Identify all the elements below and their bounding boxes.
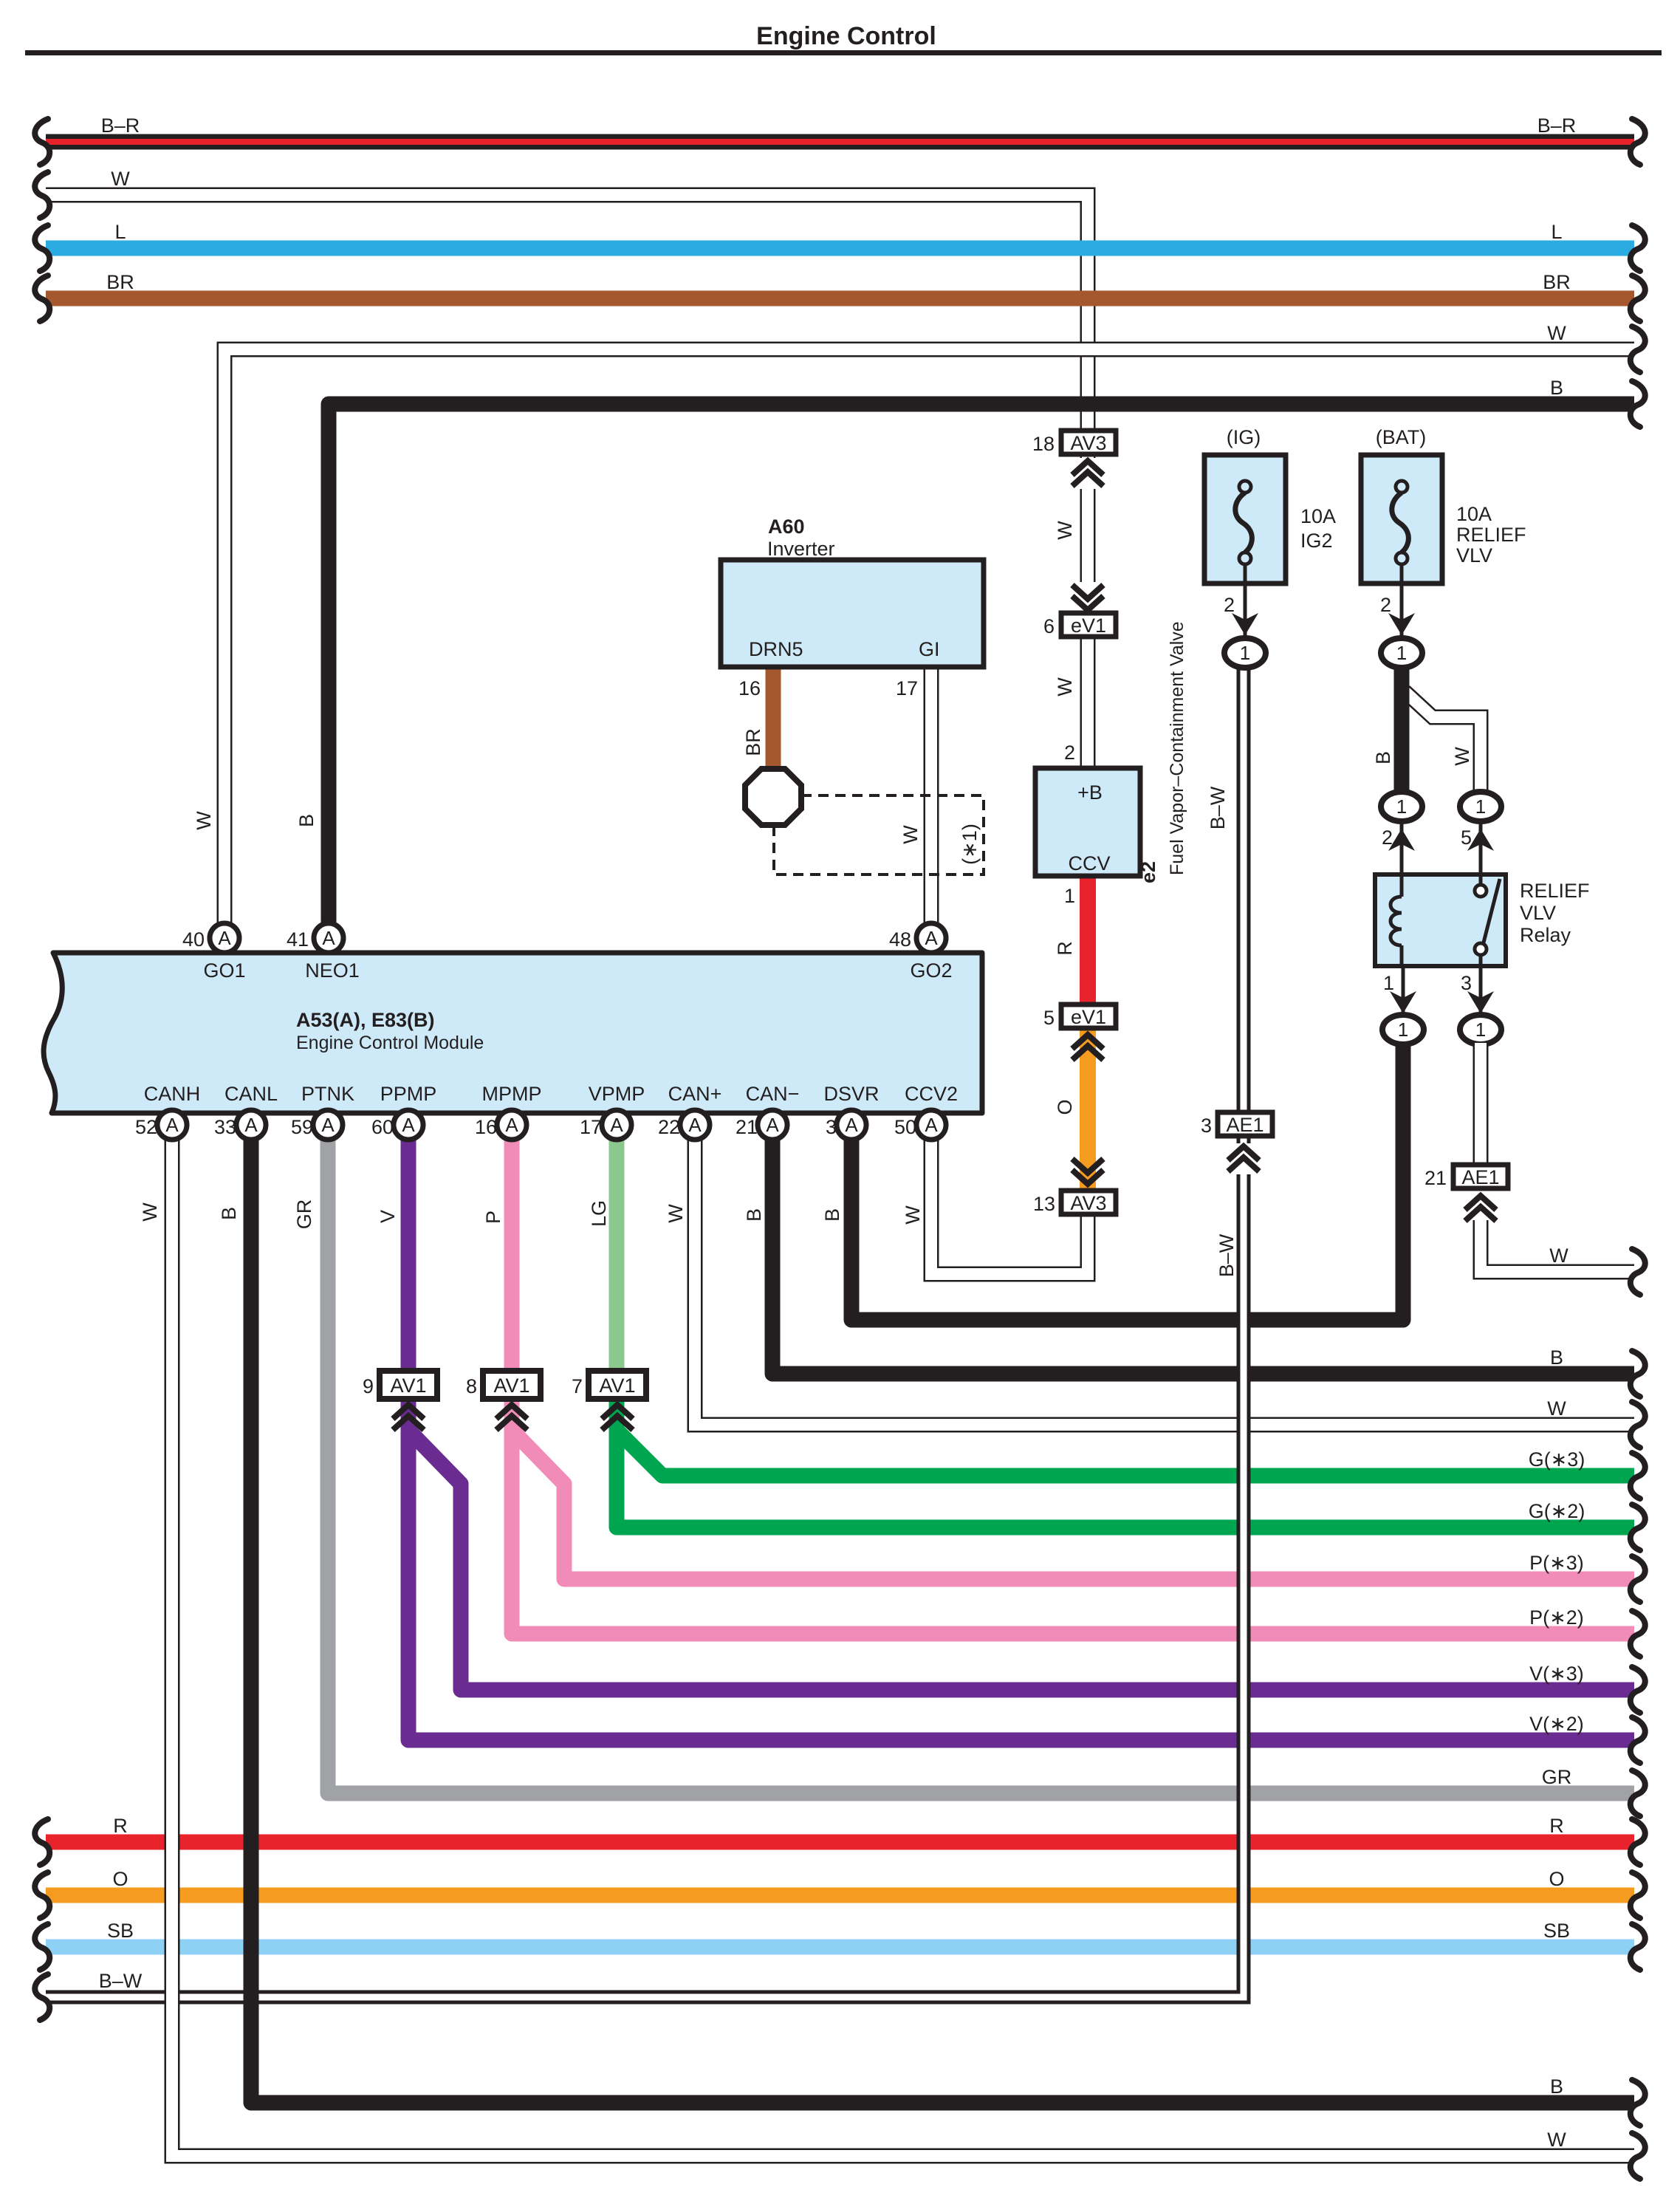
svg-text:R: R — [113, 1815, 128, 1837]
svg-text:2: 2 — [1380, 594, 1391, 616]
oval relay bottom left 1 — [1382, 1015, 1424, 1044]
connector 6 eV1 — [1043, 613, 1116, 637]
connector 13 AV3 — [1033, 1191, 1116, 1215]
svg-text:17: 17 — [580, 1116, 602, 1138]
svg-text:V(∗3): V(∗3) — [1529, 1663, 1584, 1685]
chevron below AV1 7 — [602, 1405, 633, 1430]
wire G(*3) — [617, 1397, 1634, 1476]
wire W from ECM CAN+ pin 22 — [695, 1137, 1634, 1425]
svg-text:AE1: AE1 — [1226, 1114, 1264, 1136]
svg-text:W: W — [193, 811, 215, 830]
svg-text:GR: GR — [1542, 1766, 1572, 1788]
svg-text:BR: BR — [1543, 271, 1571, 293]
svg-text:21: 21 — [1424, 1167, 1447, 1189]
svg-text:P: P — [482, 1211, 504, 1224]
chevron above AV3 13 — [1072, 1159, 1103, 1184]
arrow up into oval relay pin 5 — [1467, 829, 1494, 851]
chevron below AE1 3 — [1228, 1143, 1259, 1174]
chevron below AV1 8 — [496, 1405, 527, 1430]
svg-text:W: W — [1054, 521, 1076, 540]
svg-text:CCV2: CCV2 — [905, 1083, 958, 1105]
wire W from relay pin 3 oval to AE1 21 — [1473, 1043, 1489, 1165]
relay coil — [1391, 874, 1402, 966]
wire B-W from IG fuse oval down to bottom — [1213, 665, 1244, 1997]
ECM bottom pin 59 A — [291, 1110, 343, 1140]
ECM top pin 40 A — [182, 923, 239, 953]
wire V(*3) — [408, 1397, 1634, 1690]
wire W between AV3 and eV1 — [1080, 451, 1096, 617]
oval splice BAT pin 1 — [1381, 638, 1422, 668]
svg-text:5: 5 — [1461, 826, 1472, 849]
svg-text:A60: A60 — [768, 516, 805, 538]
svg-text:VPMP: VPMP — [589, 1083, 645, 1105]
svg-text:60: 60 — [371, 1116, 394, 1138]
ground octagon noise filter node — [745, 769, 801, 825]
svg-text:W: W — [139, 1202, 161, 1222]
wire LG from ECM VPMP pin 17 to AV1 7 — [609, 1137, 625, 1374]
svg-text:B: B — [1372, 751, 1394, 764]
ECM bottom pin 22 A — [658, 1110, 710, 1140]
svg-text:1: 1 — [1064, 885, 1075, 907]
oval relay top left 1 — [1381, 792, 1422, 821]
svg-text:8: 8 — [466, 1375, 477, 1397]
svg-text:AV1: AV1 — [493, 1375, 529, 1397]
svg-text:AV1: AV1 — [599, 1375, 635, 1397]
svg-text:B–W: B–W — [1216, 1233, 1238, 1277]
svg-text:B: B — [743, 1208, 765, 1222]
svg-text:W: W — [1451, 747, 1473, 766]
chevron below AV3 18 — [1072, 458, 1103, 489]
svg-text:W: W — [902, 1205, 924, 1225]
relay switch — [1475, 874, 1500, 966]
svg-text:SB: SB — [1543, 1920, 1570, 1942]
chevron above eV1 6 — [1072, 582, 1103, 613]
svg-text:2: 2 — [1224, 594, 1235, 616]
wire B from ECM CANL pin 33 — [251, 1137, 1634, 2103]
svg-text:W: W — [665, 1204, 687, 1223]
wire G(*2) — [617, 1397, 1634, 1527]
svg-text:2: 2 — [1382, 826, 1393, 849]
wire P(*3) — [512, 1397, 1634, 1579]
svg-text:10A: 10A — [1456, 503, 1492, 525]
inverter A60 box — [721, 560, 984, 667]
wire W from AE1 21 to right break — [1481, 1220, 1634, 1272]
connector 9 AV1 — [363, 1371, 437, 1399]
svg-text:B: B — [1550, 1346, 1563, 1369]
svg-text:P(∗3): P(∗3) — [1529, 1552, 1584, 1574]
RELIEF VLV relay box — [1375, 874, 1506, 966]
wire P(*2) — [512, 1397, 1634, 1634]
svg-text:Relay: Relay — [1520, 924, 1571, 946]
svg-text:9: 9 — [363, 1375, 374, 1397]
svg-text:PPMP: PPMP — [380, 1083, 437, 1105]
ECM bottom pin 21 A — [736, 1110, 787, 1140]
svg-text:IG2: IG2 — [1300, 530, 1333, 552]
oval relay bottom right 1 — [1460, 1015, 1501, 1044]
svg-text:O: O — [112, 1868, 128, 1890]
arrow into BAT oval — [1388, 613, 1415, 635]
wire W from ECM GO1 pin 40 — [224, 349, 1634, 923]
svg-text:VLV: VLV — [1456, 544, 1492, 566]
wire BR from inverter DRN5 pin 16 — [766, 665, 781, 773]
svg-text:BR: BR — [106, 271, 134, 293]
wire B-R black base — [46, 134, 1634, 150]
wire O from eV1 to AV3 pin 13 — [1080, 1025, 1096, 1193]
svg-text:CAN−: CAN− — [746, 1083, 800, 1105]
svg-text:33: 33 — [214, 1116, 236, 1138]
svg-text:O: O — [1549, 1868, 1564, 1890]
wire B from ECM CAN- pin 21 — [772, 1137, 1634, 1374]
wire W from ECM CANH pin 52 — [172, 1137, 1634, 2156]
svg-text:R: R — [1054, 941, 1076, 956]
wire V from ECM PPMP pin 60 to AV1 9 — [401, 1137, 416, 1374]
svg-text:V(∗2): V(∗2) — [1529, 1713, 1584, 1735]
wire P from ECM MPMP pin 16 to AV1 8 — [504, 1137, 520, 1374]
wire W (top) from left break to connector AV3 pin 18 — [46, 195, 1088, 436]
wire V(*2) — [408, 1397, 1634, 1740]
svg-text:LG: LG — [588, 1200, 610, 1227]
svg-text:52: 52 — [135, 1116, 157, 1138]
wire W from inverter GI pin 17 to ECM GO2 pin 48 — [924, 665, 939, 923]
svg-text:17: 17 — [896, 677, 918, 699]
svg-text:AV3: AV3 — [1070, 432, 1106, 454]
svg-text:W: W — [899, 825, 922, 844]
svg-text:L: L — [1551, 221, 1562, 243]
fuse 10A IG2 (IG) — [1204, 455, 1286, 637]
wire break symbols left — [35, 119, 49, 165]
svg-text:B–R: B–R — [101, 114, 140, 137]
svg-text:Fuel Vapor–Containment Valve: Fuel Vapor–Containment Valve — [1167, 621, 1187, 875]
svg-text:P(∗2): P(∗2) — [1529, 1606, 1584, 1629]
chevron below AE1 21 — [1465, 1193, 1496, 1224]
svg-text:O: O — [1054, 1099, 1076, 1115]
wire O bottom — [46, 1888, 1634, 1903]
svg-text:40: 40 — [182, 928, 205, 951]
svg-text:48: 48 — [889, 928, 911, 951]
connector 3 AE1 on B-W wire — [1201, 1112, 1272, 1137]
relay pin stub wires — [1402, 818, 1481, 1019]
chevron below eV1 5 — [1072, 1035, 1103, 1060]
svg-text:(IG): (IG) — [1227, 426, 1261, 448]
svg-text:10A: 10A — [1300, 505, 1336, 527]
svg-text:CCV: CCV — [1068, 852, 1110, 874]
svg-text:W: W — [1547, 2129, 1566, 2151]
svg-text:7: 7 — [572, 1375, 583, 1397]
svg-text:+B: +B — [1077, 781, 1103, 804]
ECM bottom pin 50 A — [894, 1110, 946, 1140]
arrow down relay pin 1 — [1390, 991, 1416, 1013]
svg-text:AE1: AE1 — [1461, 1166, 1499, 1188]
svg-text:B: B — [821, 1208, 843, 1222]
svg-text:DRN5: DRN5 — [749, 638, 803, 660]
svg-text:GO2: GO2 — [910, 959, 952, 982]
svg-text:B–R: B–R — [1537, 114, 1577, 137]
svg-text:18: 18 — [1032, 433, 1055, 455]
svg-text:CANL: CANL — [224, 1083, 278, 1105]
svg-text:Inverter: Inverter — [767, 538, 835, 560]
wire SB bottom — [46, 1940, 1634, 1955]
svg-text:eV1: eV1 — [1071, 615, 1106, 637]
dashed box (*1) shield — [774, 795, 984, 874]
svg-text:13: 13 — [1033, 1193, 1055, 1215]
connector 5 eV1 — [1043, 1004, 1116, 1029]
svg-text:3: 3 — [1201, 1115, 1212, 1137]
fuse 10A RELIEF VLV (BAT) — [1361, 455, 1442, 637]
connector 8 AV1 — [466, 1371, 541, 1399]
svg-text:CANH: CANH — [144, 1083, 201, 1105]
svg-text:V: V — [377, 1210, 399, 1223]
svg-text:GO1: GO1 — [203, 959, 245, 982]
svg-text:SB: SB — [107, 1920, 134, 1942]
CCV fuel vapor containment valve box e2 — [1035, 768, 1140, 876]
svg-text:MPMP: MPMP — [482, 1083, 542, 1105]
arrow up into oval relay pin 2 — [1388, 829, 1415, 851]
wire W from eV1 to CCV +B — [1080, 634, 1096, 772]
svg-text:W: W — [1547, 322, 1566, 344]
ECM bottom pin 16 A — [475, 1110, 527, 1140]
svg-text:DSVR: DSVR — [823, 1083, 879, 1105]
svg-text:AV3: AV3 — [1070, 1192, 1106, 1214]
svg-text:eV1: eV1 — [1071, 1006, 1106, 1028]
svg-text:Engine Control: Engine Control — [756, 22, 936, 50]
svg-text:5: 5 — [1043, 1007, 1055, 1029]
svg-text:GR: GR — [293, 1199, 315, 1230]
wire R from CCV pin 1 to eV1 pin 5 — [1080, 872, 1096, 1008]
wire L — [46, 241, 1634, 256]
svg-text:16: 16 — [475, 1116, 497, 1138]
svg-text:3: 3 — [826, 1116, 837, 1138]
svg-text:6: 6 — [1043, 615, 1055, 637]
svg-text:B: B — [295, 814, 318, 827]
svg-text:50: 50 — [894, 1116, 916, 1138]
arrow into IG oval — [1232, 613, 1258, 635]
svg-text:21: 21 — [736, 1116, 758, 1138]
ECM top pin 48 A — [889, 923, 946, 953]
svg-text:AV1: AV1 — [390, 1375, 426, 1397]
svg-text:16: 16 — [738, 677, 761, 699]
chevron below AV1 9 — [393, 1405, 424, 1430]
svg-text:B–W: B–W — [1207, 786, 1229, 829]
svg-text:R: R — [1549, 1815, 1564, 1837]
svg-text:BR: BR — [742, 728, 764, 756]
svg-text:RELIEF: RELIEF — [1456, 524, 1526, 546]
ECM bottom pin 60 A — [371, 1110, 423, 1140]
svg-text:1: 1 — [1383, 972, 1394, 994]
svg-text:G(∗2): G(∗2) — [1529, 1500, 1585, 1522]
svg-text:VLV: VLV — [1520, 902, 1556, 924]
svg-text:(BAT): (BAT) — [1376, 426, 1427, 448]
arrow down relay pin 3 — [1467, 991, 1494, 1013]
wire B-W bottom horizontal — [46, 1991, 1244, 2005]
svg-text:RELIEF: RELIEF — [1520, 880, 1590, 902]
svg-text:A53(A), E83(B): A53(A), E83(B) — [296, 1009, 435, 1031]
ECM bottom pin 3 A — [826, 1110, 866, 1140]
wire B from ECM NEO1 pin 41 — [329, 404, 1634, 923]
svg-text:B: B — [218, 1207, 240, 1220]
svg-text:L: L — [114, 221, 126, 243]
ECM bottom pin 17 A — [580, 1110, 631, 1140]
wire break symbols right — [1631, 119, 1645, 165]
svg-text:41: 41 — [287, 928, 309, 951]
svg-text:W: W — [1054, 677, 1076, 696]
svg-text:W: W — [1549, 1245, 1568, 1267]
ECM A53(A) E83(B) Engine Control Module — [44, 953, 982, 1113]
svg-text:22: 22 — [658, 1116, 680, 1138]
wire W branch from B to relay pin 5 oval — [1405, 691, 1481, 795]
svg-text:B–W: B–W — [99, 1970, 143, 1992]
svg-text:NEO1: NEO1 — [305, 959, 360, 982]
svg-text:59: 59 — [291, 1116, 313, 1138]
svg-text:CAN+: CAN+ — [668, 1083, 722, 1105]
svg-text:W: W — [1547, 1397, 1566, 1420]
svg-text:GI: GI — [919, 638, 940, 660]
svg-text:B: B — [1550, 2075, 1563, 2098]
svg-text:PTNK: PTNK — [301, 1083, 354, 1105]
connector 21 AE1 — [1424, 1165, 1508, 1189]
wire BR — [46, 291, 1634, 307]
ECM bottom pin 52 A — [135, 1110, 187, 1140]
svg-text:e2: e2 — [1137, 861, 1159, 883]
wire B from ECM DSVR pin 3 to relay pin 1 — [851, 1040, 1403, 1320]
wire B-R red stripe — [46, 139, 1634, 145]
wire GR from ECM PTNK pin 59 — [328, 1137, 1634, 1793]
oval splice IG pin 1 — [1224, 638, 1266, 668]
connector 18 AV3 — [1032, 431, 1116, 455]
ECM bottom pin 33 A — [214, 1110, 266, 1140]
svg-text:Engine Control Module: Engine Control Module — [296, 1033, 484, 1053]
svg-text:(∗1): (∗1) — [959, 824, 981, 865]
wire R bottom — [46, 1835, 1634, 1850]
svg-text:G(∗3): G(∗3) — [1529, 1448, 1585, 1471]
ECM top pin 41 A — [287, 923, 343, 953]
connector 7 AV1 — [572, 1371, 646, 1399]
svg-text:W: W — [111, 168, 130, 190]
svg-text:2: 2 — [1064, 742, 1075, 764]
oval relay top right 1 — [1460, 792, 1501, 821]
svg-text:B: B — [1550, 377, 1563, 399]
wire W from ECM CCV2 pin 50 to AV3 pin 13 — [931, 1137, 1088, 1274]
wire B from BAT fuse oval to splice — [1394, 665, 1410, 795]
svg-text:3: 3 — [1461, 972, 1472, 994]
